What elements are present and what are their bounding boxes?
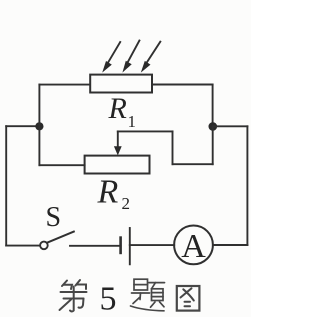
wire slider vertical [172, 131, 174, 164]
svg-text:R: R [97, 173, 119, 210]
resistor R1 (photoresistor) body [90, 75, 152, 93]
light arrow 2 [122, 41, 139, 73]
battery negative plate (short) [119, 238, 122, 253]
svg-text:1: 1 [128, 112, 137, 131]
wire left rail [5, 126, 7, 245]
rheostat slider arrow [114, 131, 122, 155]
wire ammeter right [213, 244, 248, 246]
light arrow 1 [102, 42, 120, 73]
rheostat R2 body [85, 156, 150, 174]
svg-text:R: R [108, 92, 127, 125]
ammeter A [174, 226, 213, 265]
svg-text:S: S [46, 202, 62, 233]
wire switch to battery [70, 245, 121, 247]
caption char 图 [177, 286, 200, 311]
wire inner-left vertical [38, 85, 40, 166]
wire right rail lower [212, 126, 214, 164]
wire bottom left to switch [6, 245, 40, 247]
light arrow 3 [141, 42, 161, 73]
wire slider out to right rail [173, 163, 213, 165]
wire battery to ammeter [130, 244, 174, 246]
wire to R1 left [39, 84, 90, 86]
battery positive plate (long) [129, 228, 131, 264]
node right junction [209, 122, 218, 131]
wire right rail upper [212, 85, 214, 127]
wire slider horizontal [118, 130, 173, 132]
node left junction [35, 122, 43, 130]
wire right branch top [213, 125, 248, 127]
caption char 题 [131, 279, 165, 311]
wire to R2 left [39, 164, 84, 166]
svg-text:5: 5 [100, 281, 117, 317]
label R1 [108, 92, 137, 131]
svg-text:A: A [181, 228, 206, 265]
svg-text:2: 2 [122, 194, 131, 213]
wire left branch to junction [6, 125, 39, 127]
label R2 [97, 173, 131, 213]
caption char 第 [60, 280, 87, 312]
switch S [40, 232, 74, 250]
wire far-right rail [246, 126, 248, 245]
wire R1 right [152, 84, 213, 86]
